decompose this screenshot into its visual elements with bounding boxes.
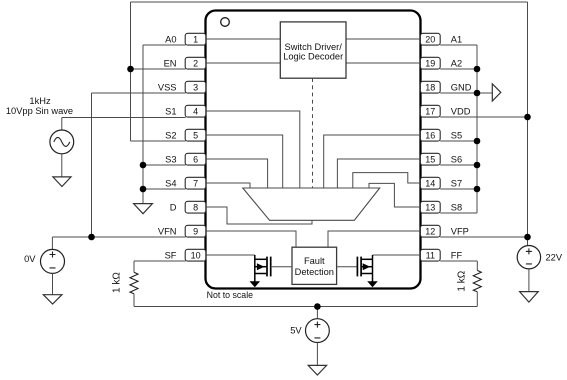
wire VFN external xyxy=(52,236,185,238)
svg-text:Switch Driver/: Switch Driver/ xyxy=(285,42,343,52)
wire FF to resistor R right xyxy=(476,261,478,270)
wire S1 external from sine source xyxy=(62,117,186,119)
svg-text:S3: S3 xyxy=(165,154,176,164)
svg-text:4: 4 xyxy=(193,106,198,116)
junction S7 xyxy=(474,186,481,193)
wire resistor R left bottom stem xyxy=(133,294,135,307)
svg-text:S2: S2 xyxy=(165,130,176,140)
wire S3 internal xyxy=(206,159,268,188)
ground arrow at GND pin xyxy=(492,84,501,101)
svg-text:22V: 22V xyxy=(546,253,563,263)
junction S5 xyxy=(474,138,481,145)
pin 3 box xyxy=(185,81,206,93)
svg-text:12: 12 xyxy=(425,226,435,236)
svg-text:14: 14 xyxy=(425,178,435,188)
svg-text:5: 5 xyxy=(193,130,198,140)
pin 4 box xyxy=(185,105,206,117)
wire right column vertical A1 to S8 xyxy=(476,45,478,213)
junction 5V rail xyxy=(314,303,321,310)
svg-text:3: 3 xyxy=(193,82,198,92)
svg-text:16: 16 xyxy=(425,130,435,140)
wire A2 external xyxy=(440,68,477,70)
svg-text:17: 17 xyxy=(425,106,435,116)
ground under 5V source xyxy=(308,365,326,375)
svg-text:Not to scale: Not to scale xyxy=(207,290,254,300)
wire A1 external xyxy=(440,44,477,46)
wire S6 internal xyxy=(337,159,420,188)
wire D internal to mux output xyxy=(206,207,312,224)
wire right vertical to 22V source xyxy=(527,2,529,246)
svg-text:13: 13 xyxy=(425,202,435,212)
pin 2 box xyxy=(185,57,206,69)
wire decoder to pin20 xyxy=(346,38,420,40)
wire sine source to S1 vertical xyxy=(61,118,63,131)
svg-text:5V: 5V xyxy=(290,326,302,336)
pin 9 box xyxy=(185,225,206,237)
svg-text:A0: A0 xyxy=(165,34,176,44)
ground under 22V source xyxy=(520,292,539,303)
svg-text:GND: GND xyxy=(451,82,472,92)
svg-text:Detection: Detection xyxy=(295,267,334,277)
wire S5 external xyxy=(440,140,477,142)
wire VFN internal xyxy=(206,231,296,247)
voltage source V1 sine 1kHz xyxy=(50,130,74,154)
wire SF external xyxy=(134,260,186,262)
svg-text:10: 10 xyxy=(191,250,201,260)
svg-text:6: 6 xyxy=(193,154,198,164)
wire S5 internal xyxy=(324,135,421,188)
svg-text:Logic Decoder: Logic Decoder xyxy=(283,51,343,61)
svg-text:S1: S1 xyxy=(165,106,176,116)
svg-text:FF: FF xyxy=(451,250,463,260)
wire S2 external xyxy=(131,140,186,142)
junction VFP 22V rail xyxy=(524,234,531,241)
resistor R right 1 kOhm zigzag xyxy=(473,270,481,291)
svg-text:EN: EN xyxy=(164,58,177,68)
wire bottom 5V rail xyxy=(134,306,477,308)
dashed control line decoder to mux xyxy=(312,78,314,188)
pin 13 box xyxy=(420,201,440,213)
wire pin1 to decoder xyxy=(206,38,281,40)
svg-text:15: 15 xyxy=(425,154,435,164)
wire S4 external xyxy=(143,188,186,190)
transistor Q1 left MOSFET xyxy=(250,255,293,287)
svg-text:1kHz: 1kHz xyxy=(29,96,51,106)
wire GND external xyxy=(440,92,492,94)
svg-text:1 kΩ: 1 kΩ xyxy=(112,272,123,293)
svg-text:8: 8 xyxy=(193,202,198,212)
pin 19 box xyxy=(420,57,440,69)
svg-text:9: 9 xyxy=(193,226,198,236)
mux trapezoid xyxy=(243,188,380,220)
pin 15 box xyxy=(420,153,440,165)
svg-text:Fault: Fault xyxy=(304,256,325,266)
wire SF to resistor R1 xyxy=(133,261,135,272)
svg-text:VFP: VFP xyxy=(451,226,469,236)
wire S4 internal xyxy=(206,183,250,188)
wire SF internal xyxy=(206,254,255,256)
wire sine source to ground stem xyxy=(61,154,63,177)
svg-text:D: D xyxy=(170,202,177,212)
svg-text:S5: S5 xyxy=(451,130,462,140)
ground under 0V source xyxy=(43,295,62,304)
wire S7 external xyxy=(440,188,477,190)
svg-text:S4: S4 xyxy=(165,178,176,188)
wire S8 external xyxy=(440,212,477,214)
junction S4 xyxy=(140,186,147,193)
junction VSS VFN xyxy=(88,234,95,241)
pin 7 box xyxy=(185,177,206,189)
pin 17 box xyxy=(420,105,440,117)
wire S8 internal xyxy=(369,183,420,207)
svg-text:1 kΩ: 1 kΩ xyxy=(456,270,467,291)
pin 14 box xyxy=(420,177,440,189)
svg-text:18: 18 xyxy=(425,82,435,92)
wire FF external xyxy=(440,260,477,262)
junction VDD 22V rail xyxy=(524,114,531,121)
svg-text:1: 1 xyxy=(193,34,198,44)
svg-text:2: 2 xyxy=(193,58,198,68)
pin 12 box xyxy=(420,225,440,237)
pin 18 box xyxy=(420,81,440,93)
pin 1 box xyxy=(185,33,206,45)
svg-text:10Vpp Sin wave: 10Vpp Sin wave xyxy=(6,106,73,116)
svg-text:19: 19 xyxy=(425,58,435,68)
wire 0V source to ground stem xyxy=(52,273,54,294)
svg-text:0V: 0V xyxy=(24,254,36,264)
wire S2 internal xyxy=(206,135,283,188)
pin 5 box xyxy=(185,129,206,141)
ground under sine source xyxy=(53,177,71,187)
svg-text:A2: A2 xyxy=(451,58,462,68)
svg-text:S8: S8 xyxy=(451,202,462,212)
pin 20 box xyxy=(420,33,440,45)
pin 11 box xyxy=(420,249,440,261)
wire pin2 to decoder xyxy=(206,62,281,64)
wire FF internal xyxy=(373,254,421,256)
wire S1 internal xyxy=(206,111,300,188)
wire left vertical EN net xyxy=(130,2,132,141)
svg-text:A1: A1 xyxy=(451,34,462,44)
wire VSS vertical down to VFN xyxy=(91,93,93,237)
junction S3 xyxy=(140,162,147,169)
voltage source V2 0V xyxy=(41,249,65,273)
wire S6 external xyxy=(440,164,477,166)
pin 6 box xyxy=(185,153,206,165)
svg-text:VFN: VFN xyxy=(158,226,177,236)
wire S3 external xyxy=(143,164,186,166)
resistor R left 1 kOhm zigzag xyxy=(130,272,138,294)
pin 16 box xyxy=(420,129,440,141)
svg-text:7: 7 xyxy=(193,178,198,188)
block Fault Detection xyxy=(292,247,337,284)
junction A2 xyxy=(474,66,481,73)
op IC body U1 xyxy=(206,11,421,289)
block Switch Driver / Logic Decoder xyxy=(280,22,346,78)
ground under S2/S3/S4 net xyxy=(134,204,153,214)
wire VFP internal xyxy=(328,231,420,247)
svg-text:20: 20 xyxy=(425,34,435,44)
wire A0 vertical to ground xyxy=(142,45,144,204)
svg-text:VSS: VSS xyxy=(158,82,177,92)
pin 1 indicator circle xyxy=(221,18,230,27)
junction GND xyxy=(474,90,481,97)
wire decoder to pin19 xyxy=(346,62,420,64)
pin 10 box xyxy=(185,249,206,261)
svg-text:11: 11 xyxy=(426,250,435,260)
voltage source V4 5V xyxy=(306,319,330,343)
wire EN external xyxy=(131,68,186,70)
wire 5V source to ground stem xyxy=(316,343,318,366)
wire VSS external xyxy=(92,92,186,94)
junction S6 xyxy=(474,162,481,169)
junction EN top rail xyxy=(127,66,134,73)
wire 22V source to ground stem xyxy=(528,269,530,292)
svg-text:VDD: VDD xyxy=(451,106,471,116)
wire resistor R right bottom stem xyxy=(476,292,478,307)
wire VDD external xyxy=(440,116,527,118)
wire A0 external xyxy=(143,44,186,46)
svg-text:S7: S7 xyxy=(451,178,462,188)
wire VFN to 0V source vertical xyxy=(51,237,53,249)
transistor Q2 right MOSFET xyxy=(337,255,378,287)
voltage source V3 22V xyxy=(517,246,540,269)
svg-text:S6: S6 xyxy=(451,154,462,164)
wire top rail (VDD net to 22V) xyxy=(131,1,528,3)
pin 8 box xyxy=(185,201,206,213)
wire VFP external xyxy=(440,236,527,238)
wire S7 internal xyxy=(353,173,421,188)
wire 5V source stem to rail xyxy=(316,307,318,319)
svg-text:SF: SF xyxy=(165,250,177,260)
